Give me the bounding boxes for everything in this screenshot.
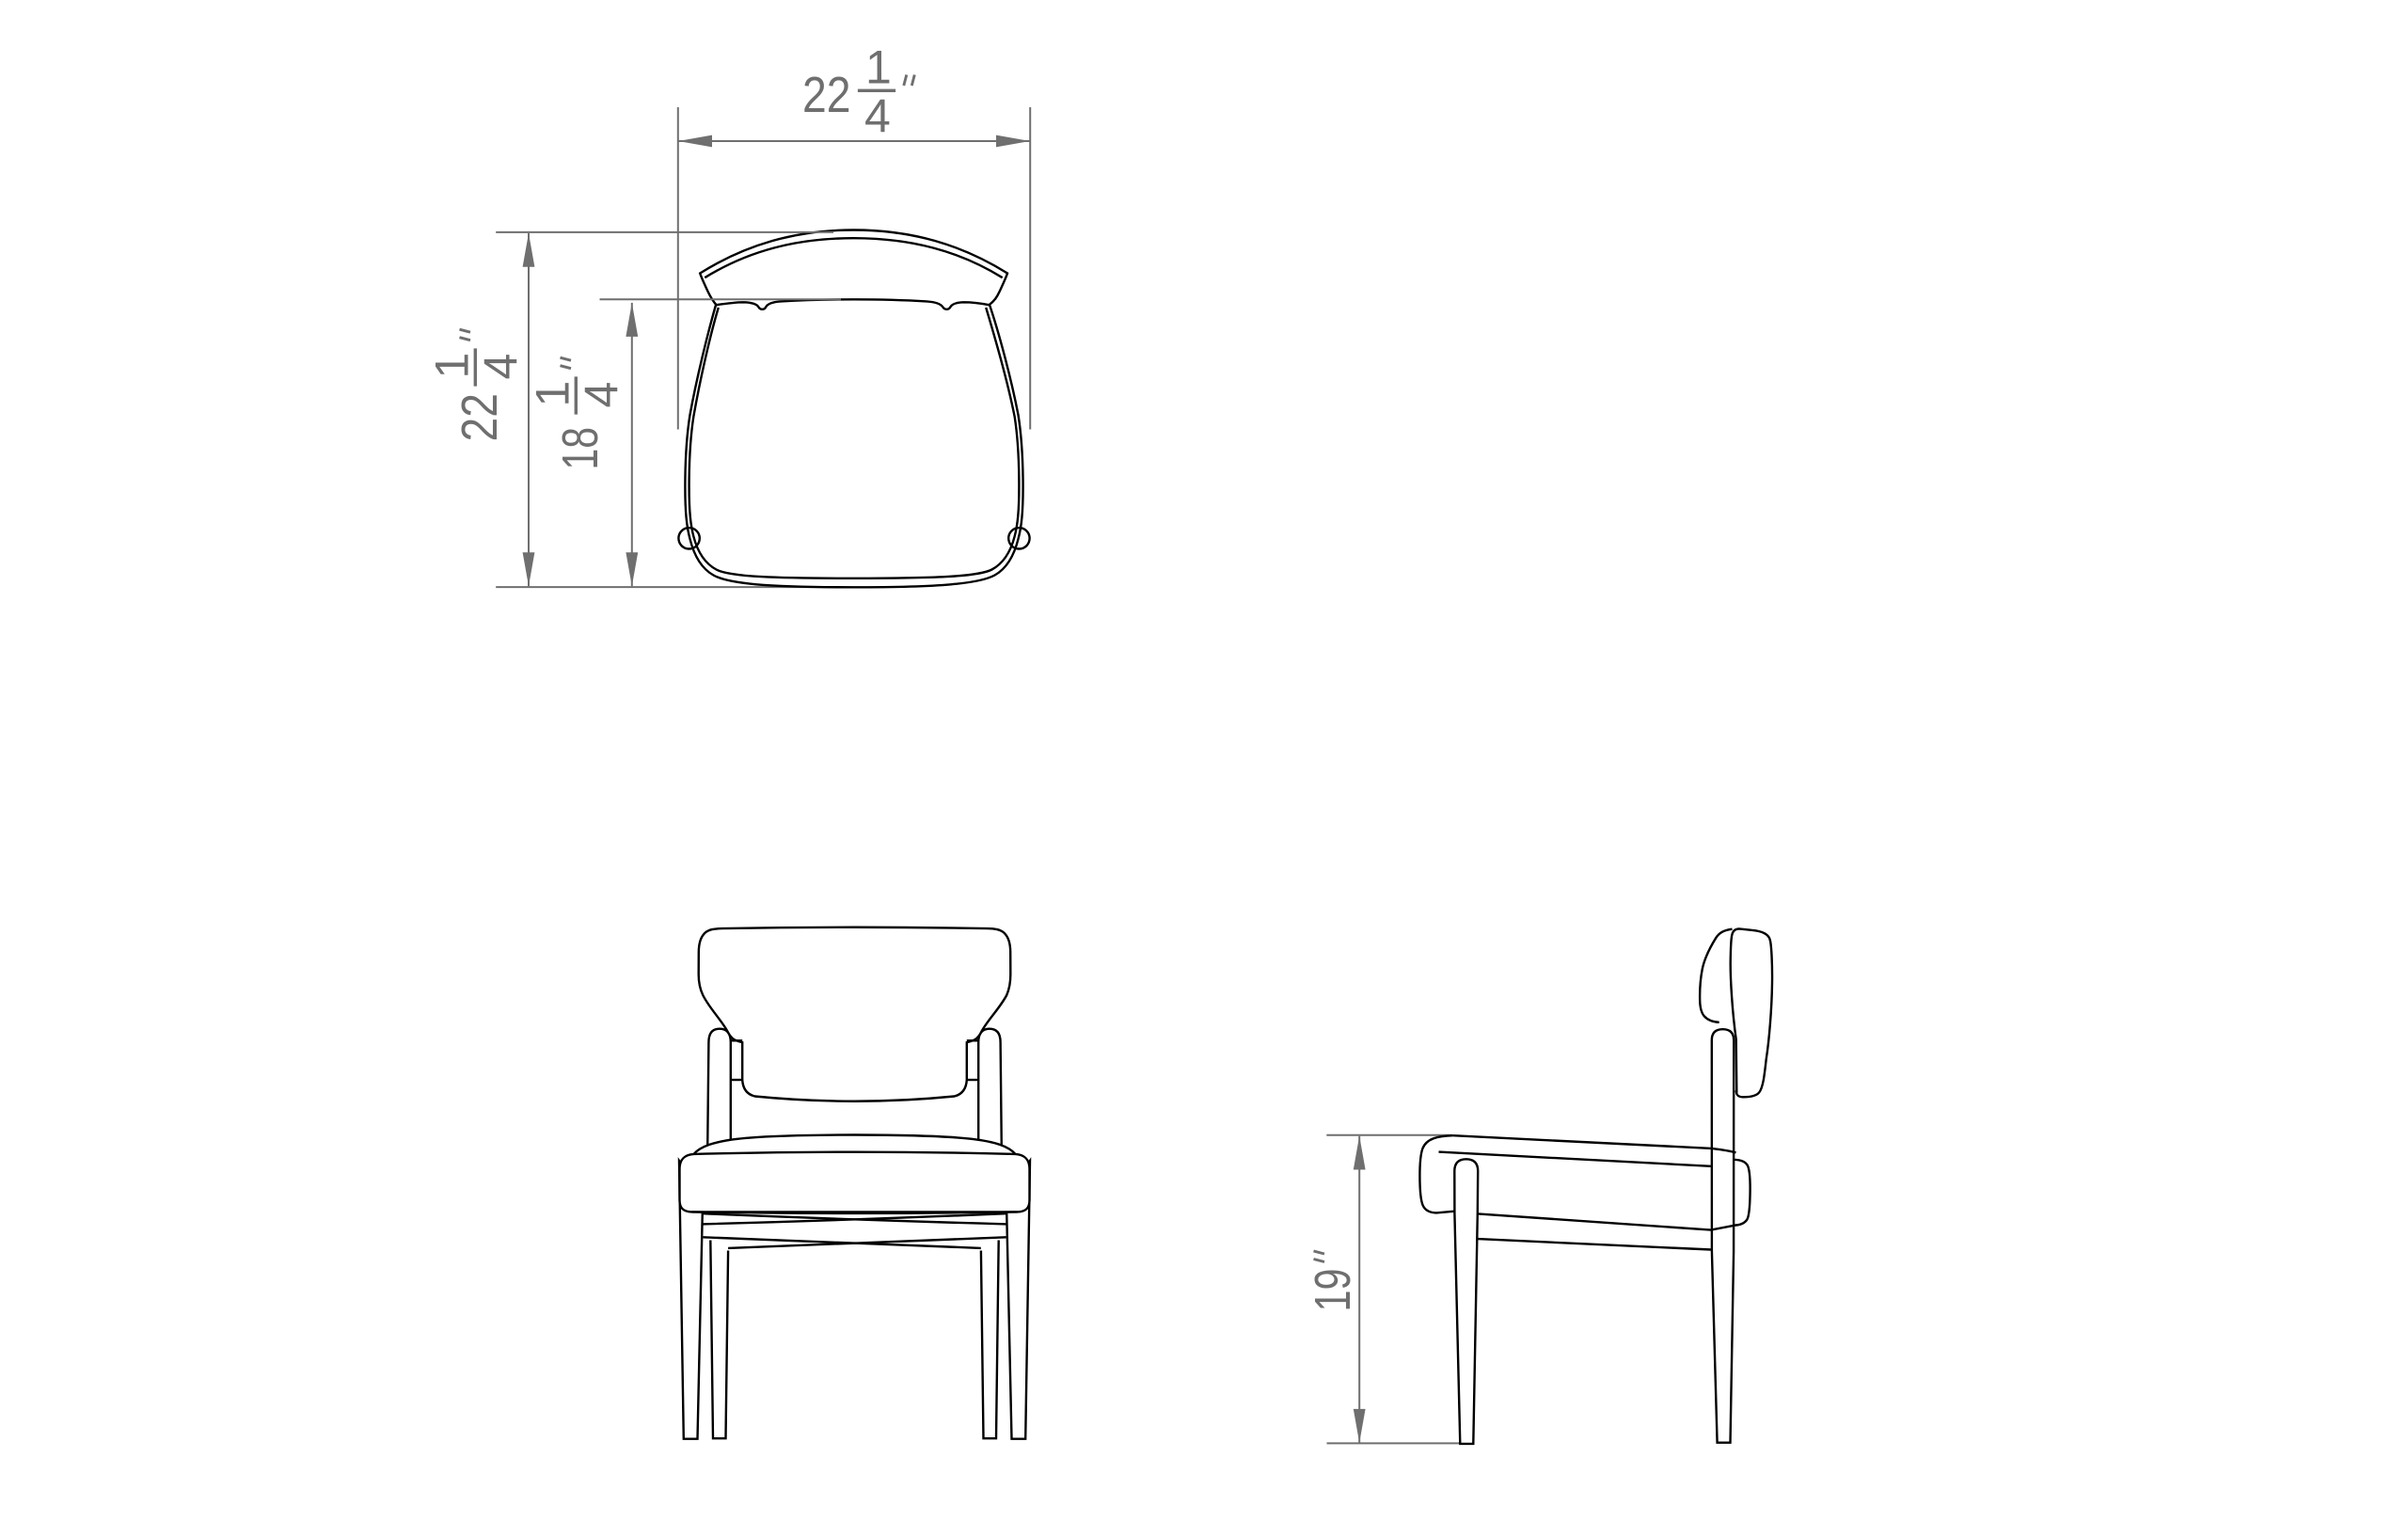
dim 22 1/4 vertical: top arrowhead xyxy=(523,233,535,267)
dim 22 1/4 horizontal: left arrowhead xyxy=(678,135,712,148)
front view: rear left leg xyxy=(710,1241,728,1439)
side view: seat top edge xyxy=(1453,1135,1736,1152)
side view: rear post / back leg xyxy=(1712,1029,1734,1443)
svg-text:1: 1 xyxy=(865,41,892,94)
dim 18 1/4 vertical: top arrowhead xyxy=(626,303,638,337)
svg-text:18: 18 xyxy=(552,427,609,470)
side view: backrest panel (white filled) xyxy=(1731,928,1772,1097)
top view: backrest band inner top arc xyxy=(705,238,1002,277)
svg-text:4: 4 xyxy=(576,382,628,408)
dim 22 1/4 horizontal: dimension line xyxy=(678,140,1030,142)
top view: seat inner (piping) outline xyxy=(689,308,1020,578)
front view: right back post xyxy=(978,1029,1002,1149)
top view: backrest band (white filled, outer arc + end caps + wavy bottom) xyxy=(700,230,1007,309)
front view: cushion seam line xyxy=(694,1152,1016,1154)
front view: backrest (white filled outline with ears and bottom U) xyxy=(699,927,1011,1101)
front view: rail bottom X line left-to-right xyxy=(703,1237,980,1248)
side view: dim 19 extension line bottom xyxy=(1327,1442,1461,1444)
front view: rear right leg xyxy=(981,1241,999,1439)
front view: apron X line upper right-to-left xyxy=(702,1213,1006,1224)
dim 22 1/4 vertical: extension line top (drawn over band) xyxy=(496,231,833,233)
dim 22 1/4 horizontal: right arrowhead xyxy=(996,135,1030,148)
dim 22 1/4 vertical: dimension line xyxy=(528,233,530,586)
dim text 22 1/4" top xyxy=(802,41,914,143)
dim text 22 1/4" left (rotated) xyxy=(426,329,528,441)
side view: dim 19 extension line top xyxy=(1326,1134,1452,1136)
top view: rear leg cap circle right xyxy=(1008,528,1029,548)
front view: front right leg xyxy=(1006,1161,1030,1439)
svg-text:1: 1 xyxy=(527,381,579,407)
side view: dim 19 top arrowhead xyxy=(1354,1136,1366,1170)
side view: dim 19 bottom arrowhead xyxy=(1354,1409,1366,1443)
front view: rail bottom X line right-to-left xyxy=(728,1237,1006,1248)
side view: seat second top line xyxy=(1439,1152,1711,1166)
side view: dim text 19" (rotated) xyxy=(1305,1251,1361,1312)
top view: rear leg cap circle left xyxy=(678,528,699,548)
dim 22 1/4 horizontal: extension line left xyxy=(677,107,679,430)
side view: rail bottom edge xyxy=(1478,1239,1711,1249)
dim 18 1/4 vertical: extension line top (drawn over band) xyxy=(600,298,842,300)
dim 18 1/4 vertical: bottom arrowhead xyxy=(626,552,638,586)
top view: seat outer outline xyxy=(685,304,1022,588)
side view: dim 19 dimension line xyxy=(1358,1136,1360,1443)
front view: seat cushion (crown + body, white filled) xyxy=(680,1135,1030,1212)
dim 22 1/4 vertical: bottom arrowhead xyxy=(523,552,535,586)
dim 22 1/4 horizontal: extension line right xyxy=(1029,107,1031,430)
front view: left back post xyxy=(707,1029,731,1149)
svg-text:22: 22 xyxy=(802,67,851,123)
front view: left tab lines xyxy=(731,1039,742,1041)
side view: seat nose and left edge xyxy=(1419,1135,1454,1212)
front view: right tab lines xyxy=(967,1039,978,1041)
front view: apron X line upper left-to-right xyxy=(703,1213,1007,1224)
dim 22 1/4 vertical: extension line bottom xyxy=(496,586,841,588)
front view: cushion bottom sag line xyxy=(692,1212,1018,1213)
svg-text:4: 4 xyxy=(864,90,891,143)
svg-text:19: 19 xyxy=(1305,1269,1361,1312)
side view: front leg (white filled, occludes seat lines) xyxy=(1454,1159,1478,1444)
side view: seat bottom edge right of leg xyxy=(1478,1213,1734,1229)
side view: rear cushion bulge xyxy=(1734,1160,1751,1226)
side view: backrest cushion profile xyxy=(1700,929,1732,1022)
dim 18 1/4 vertical: dimension line xyxy=(631,303,633,586)
dim text 18 1/4" (rotated) xyxy=(527,357,628,469)
front view: front left leg xyxy=(679,1161,703,1439)
